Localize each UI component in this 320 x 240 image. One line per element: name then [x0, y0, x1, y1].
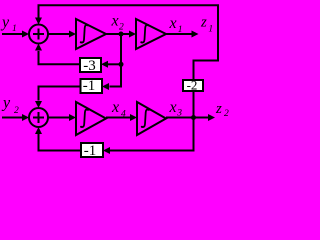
svg-text:1: 1 — [208, 25, 213, 35]
svg-text:1: 1 — [12, 24, 17, 34]
svg-text:-2: -2 — [187, 78, 198, 93]
svg-text:3: 3 — [176, 109, 182, 119]
svg-text:-1: -1 — [84, 143, 97, 159]
svg-text:z: z — [215, 101, 222, 117]
svg-text:x: x — [169, 99, 177, 116]
svg-text:2: 2 — [119, 23, 124, 33]
svg-text:x: x — [111, 13, 119, 30]
svg-text:x: x — [169, 15, 177, 32]
svg-text:x: x — [111, 99, 119, 116]
svg-text:-3: -3 — [83, 58, 96, 74]
svg-text:2: 2 — [14, 106, 19, 116]
svg-text:1: 1 — [178, 25, 183, 35]
svg-text:-1: -1 — [83, 78, 96, 94]
svg-text:4: 4 — [121, 110, 126, 120]
svg-text:2: 2 — [224, 109, 229, 119]
svg-text:y: y — [0, 14, 10, 31]
svg-text:z: z — [200, 15, 207, 31]
svg-text:y: y — [1, 94, 11, 111]
